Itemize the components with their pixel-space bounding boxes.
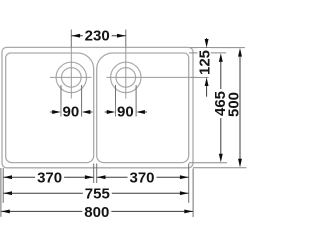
svg-text:370: 370 — [37, 170, 62, 187]
top edge extension line (right side, for 125/500) — [190, 47, 245, 49]
dimension 230 label — [83, 28, 112, 45]
dimension 465: line — [220, 62, 222, 155]
bowl top extension line (right side, for 465) — [189, 52, 226, 54]
svg-text:500: 500 — [225, 92, 242, 117]
drain 2 crosshair horizontal / 125 extension line — [107, 76, 191, 78]
dimension 90 right: label — [116, 104, 135, 121]
bottom middle extension line (bowl1 right) — [93, 164, 95, 184]
svg-text:800: 800 — [84, 204, 109, 221]
dimension 370 right: line — [97, 176, 189, 178]
dimension 500: line — [239, 56, 241, 159]
dimension 230 left arrow — [72, 34, 81, 38]
dimension 500: bottom arrow (down) — [238, 159, 242, 168]
dimension 125: line — [206, 48, 208, 78]
dimension 370 right: label — [128, 170, 157, 187]
outer bottom extension line (right side, for 500) — [193, 167, 247, 169]
dimension 800: label — [82, 204, 111, 221]
dimension 370 left: arrows — [3, 175, 12, 179]
bottom-left outer extension line (for 800) — [0, 168, 2, 217]
dimension 125: bottom arrow (up) with tail — [205, 77, 209, 86]
drain 1 crosshair vertical / 230 left extension — [70, 30, 72, 48]
dimension 370 left: label — [35, 170, 64, 187]
svg-text:370: 370 — [129, 170, 154, 187]
bottom middle extension line (bowl2 left) — [96, 164, 98, 184]
dimension 500: label (rotated) — [225, 90, 242, 119]
bottom extension line (outer right, for 800) — [192, 169, 194, 218]
drain 2 crosshair vertical / 230 right extension — [125, 30, 127, 48]
dimension 800: arrows — [1, 209, 10, 213]
bowl 1 (left) — [6, 53, 94, 163]
dimension 500: top arrow (up) — [238, 48, 242, 57]
dimension 465: label (rotated) — [212, 89, 229, 118]
drain 2 inner circle — [116, 68, 136, 88]
bowl bottom extension line (right side) — [189, 162, 227, 164]
svg-text:230: 230 — [85, 28, 110, 45]
svg-text:90: 90 — [117, 104, 134, 121]
dimension 755: line — [3, 192, 189, 194]
bowl 2 (right) — [97, 53, 189, 163]
dimension 125: top arrow (down) with tail — [206, 38, 208, 41]
drain 1 outer circle — [56, 62, 86, 92]
drain 1 crosshair horizontal — [50, 76, 92, 78]
dimension 230 line — [71, 35, 126, 37]
dimension 465: top arrow (up) — [219, 53, 223, 62]
drain 2 outer circle — [111, 62, 141, 92]
bottom extension line (bowl2 right, for 370/755) — [188, 164, 190, 203]
dimension 90 left: extension lines — [60, 85, 62, 117]
svg-text:125: 125 — [197, 50, 214, 75]
dimension 755: arrows — [3, 191, 12, 195]
dimension 125: label (rotated) — [197, 48, 214, 77]
svg-text:755: 755 — [85, 186, 110, 203]
dimension 370 right: arrows — [97, 175, 106, 179]
bottom-left extension line (bowl1 left, for 370/755) — [2, 168, 4, 203]
dimension 90 right: outer arrows with tails — [105, 111, 110, 113]
dimension 90 right: extension lines — [115, 85, 117, 117]
dimension 370 left: line — [3, 176, 94, 178]
drain 1 inner circle — [62, 68, 82, 88]
dimension 90 left: label — [61, 104, 80, 121]
dimension 465: bottom arrow (down) — [219, 154, 223, 163]
outer sink rim — [2, 47, 193, 167]
svg-text:90: 90 — [63, 104, 80, 121]
dimension 800: line — [1, 210, 193, 212]
dimension 230 right arrow — [117, 34, 126, 38]
dimension 755: label — [83, 186, 112, 203]
dimension 90 left: outer arrows with tails — [50, 111, 55, 113]
